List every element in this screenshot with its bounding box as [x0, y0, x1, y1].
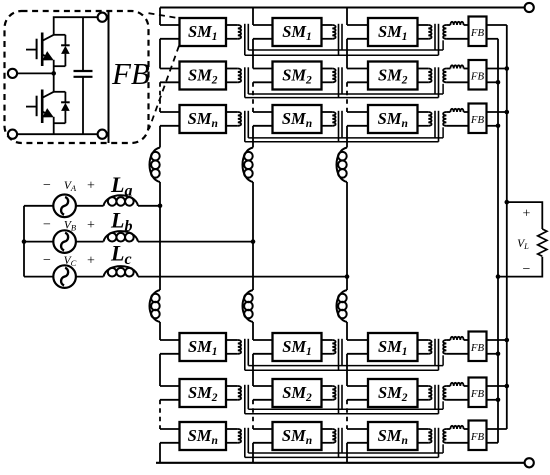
wire midpoint node to Q2 collector: [53, 73, 55, 91]
transistor Q1 (upper IGBT): [26, 33, 54, 67]
submodule SM1 lower arm phase C: [368, 333, 418, 361]
submodule SMn upper arm phase A: [180, 105, 227, 133]
svg-text:+: +: [87, 178, 95, 193]
wire FB row 1 upper positive output: [487, 24, 507, 26]
wire lower arm SMn to bottom bus (phase C): [346, 443, 348, 463]
wire Q1 emitter to midpoint node: [53, 60, 55, 74]
submodule SM2 lower arm phase A: [180, 379, 227, 407]
node FB row 2 lower positive junction: [505, 384, 510, 389]
transformer T2c upper primary winding: [418, 69, 432, 83]
label Lb: [110, 208, 132, 236]
wire outer dc-link bus: [506, 25, 508, 429]
label FB of detail box: [111, 56, 150, 91]
wire phase node to lower arm inductor (phase A): [159, 206, 161, 290]
transformer Tna upper core: [245, 111, 249, 142]
inductor Lc: [104, 266, 139, 277]
transformer Tnb lower core: [339, 428, 343, 458]
dashed leader line lower (detail to SM1): [149, 46, 179, 129]
wire row 2 lower series link lower: [245, 413, 439, 415]
wire row n lower series link upper: [248, 452, 443, 454]
wire pins of SMn upper arm phase A: [160, 112, 180, 126]
wire top rail of detail: [54, 17, 98, 35]
label plus of load: [523, 207, 531, 222]
arm inductor lower (phase B): [243, 290, 254, 322]
inductor output filter row n lower: [446, 426, 468, 429]
submodule SMn lower arm phase C: [368, 422, 418, 450]
wire upper arm inductor to phase node A: [159, 182, 161, 206]
arm inductor lower (phase A): [150, 290, 161, 322]
wire bottom rail of detail: [17, 133, 99, 135]
node neutral junction at VB: [22, 239, 27, 244]
node midpoint junction: [51, 71, 56, 76]
wire VA left lead: [24, 205, 53, 207]
wire FB row n lower positive output: [487, 428, 507, 430]
wire top bus to upper arm SM1 (phase A): [159, 8, 161, 26]
wire FB row 1 lower negative output: [487, 353, 499, 355]
submodule SM1 lower arm phase B: [273, 333, 322, 361]
terminal node top-right of detail: [98, 13, 107, 22]
full-bridge module FB row 1 upper: [469, 17, 487, 47]
transformer Tnb upper core: [339, 111, 343, 142]
svg-text:FB: FB: [470, 27, 485, 39]
svg-text:FB: FB: [470, 388, 485, 400]
submodule SMn upper arm phase B: [273, 105, 322, 133]
wire VC right lead: [76, 276, 104, 278]
wire La to leg 1: [138, 205, 160, 207]
label polarity and name of VA: [43, 178, 95, 194]
wire secondary to FB module row 2 lower: [446, 399, 468, 401]
wire secondary bottom lead to row link: [442, 40, 444, 50]
arm inductor upper (phase A): [150, 148, 161, 183]
node load positive tap: [505, 200, 510, 205]
full-bridge module FB row n lower: [469, 421, 487, 451]
wire Lb to leg 2: [138, 241, 253, 243]
wire lower arm SM1 to SM2 (phase A): [159, 354, 161, 386]
solid separator line in detail box: [108, 11, 110, 143]
node phase C junction: [345, 274, 350, 279]
inductor Lb: [104, 231, 139, 242]
wire upper arm SM1 to SM2 (phase A): [159, 39, 161, 69]
wire inner dc-link bus: [497, 39, 499, 443]
wire pins of SM2 upper arm phase C: [347, 69, 368, 83]
dashed continuation lower arm SM2 to SMn (phase C): [346, 400, 348, 429]
submodule SM2 upper arm phase B: [273, 62, 322, 90]
transformer T2b upper primary winding: [322, 69, 336, 83]
wire bottom dc bus: [156, 462, 524, 464]
wire FB row 1 lower positive output: [487, 339, 507, 341]
node FB row n upper positive junction: [505, 110, 510, 115]
dashed continuation lower arm SM2 to SMn (phase B): [252, 400, 254, 429]
wire lower arm SMn to bottom bus (phase B): [252, 443, 254, 463]
dashed continuation upper arm SM2 to SMn (phase B): [252, 82, 254, 112]
svg-text:FB: FB: [470, 114, 485, 126]
wire Q2 emitter to bottom rail: [53, 117, 55, 134]
wire FB row n lower negative output: [487, 442, 499, 444]
terminal top dc bus: [525, 3, 534, 12]
label minus of load: [523, 262, 531, 277]
full-bridge module FB row n upper: [469, 104, 487, 134]
submodule SMn lower arm phase A: [180, 422, 227, 450]
wire lower arm inductor to SM1 (phase C): [346, 322, 348, 340]
node FB row 2 upper negative junction: [496, 80, 501, 85]
svg-text:+: +: [523, 207, 531, 222]
wire top bus to upper arm SM1 (phase C): [346, 8, 348, 26]
arm inductor upper (phase B): [243, 148, 254, 183]
transformer T1c upper secondary winding: [443, 25, 446, 39]
wire upper arm SMn to arm inductor (phase B): [252, 126, 254, 148]
transformer T1c upper primary winding: [418, 25, 432, 39]
transformer T1b lower core: [339, 339, 343, 371]
wire pins of SM1 upper arm phase C: [347, 25, 368, 39]
svg-text:−: −: [523, 262, 531, 277]
transformer Tna lower core: [245, 428, 249, 458]
svg-text:FB: FB: [470, 342, 485, 354]
submodule SM2 lower arm phase C: [368, 379, 418, 407]
wire secondary bottom lead to row link: [442, 401, 444, 409]
node FB row n upper negative junction: [496, 124, 501, 129]
wire lower arm SMn to bottom bus (phase A): [159, 443, 161, 463]
transformer Tna lower primary winding: [226, 429, 241, 443]
wire FB row n upper positive output: [487, 111, 507, 113]
transformer T1a lower primary winding: [226, 340, 241, 354]
wire row n upper series link lower: [245, 141, 439, 143]
ac source VB: [53, 230, 76, 253]
transformer T2c upper secondary winding: [443, 69, 446, 83]
transformer T2c lower core: [435, 385, 439, 414]
transformer Tnc upper core: [435, 111, 439, 142]
wire left terminal to midpoint node: [17, 72, 54, 74]
capacitor C (submodule dc-link): [74, 71, 93, 77]
wire FB row 2 lower negative output: [487, 399, 499, 401]
label La: [110, 172, 132, 200]
transformer T2b lower primary winding: [322, 386, 336, 400]
node FB row 1 lower negative junction: [496, 352, 501, 357]
node FB row 1 lower positive junction: [505, 338, 510, 343]
wire secondary bottom lead to row link: [442, 84, 444, 94]
inductor output filter row n upper: [446, 109, 468, 112]
diode D2 (antiparallel with Q2): [54, 92, 70, 123]
wire secondary to FB module row n upper: [446, 125, 468, 127]
node phase B junction: [251, 239, 256, 244]
terminal node bottom-right of detail: [98, 130, 107, 139]
label polarity and name of VB: [43, 218, 95, 234]
transformer T1b lower primary winding: [322, 340, 336, 354]
transformer T2b lower core: [339, 385, 343, 414]
wire VB left lead: [24, 241, 53, 243]
transformer T2c lower secondary winding: [443, 386, 446, 400]
transformer T1c lower core: [435, 339, 439, 371]
svg-text:−: −: [43, 218, 51, 233]
wire lower arm inductor to SM1 (phase A): [159, 322, 161, 340]
wire FB row 2 upper positive output: [487, 68, 507, 70]
wire load negative lead: [498, 257, 542, 277]
wire pins of SM1 lower arm phase C: [347, 340, 368, 354]
wire row 2 upper series link upper: [248, 93, 443, 95]
arm inductor lower (phase C): [337, 290, 348, 322]
wire neutral bus of sources: [23, 206, 25, 277]
svg-text:FB: FB: [470, 431, 485, 443]
transistor Q2 (lower IGBT): [26, 90, 54, 124]
resistor load VL: [538, 229, 547, 256]
dashed continuation upper arm SM2 to SMn (phase C): [346, 82, 348, 112]
wire FB row 2 upper negative output: [487, 81, 499, 83]
wire VC left lead: [24, 276, 53, 278]
wire upper arm SMn to arm inductor (phase A): [159, 126, 161, 148]
full-bridge module FB row 2 upper: [469, 60, 487, 90]
wire pins of SM1 upper arm phase A: [160, 25, 180, 39]
transformer Tna upper primary winding: [226, 112, 241, 126]
wire pins of SM2 upper arm phase B: [253, 69, 273, 83]
wire lower arm SM1 to SM2 (phase C): [346, 354, 348, 386]
transformer Tnc lower secondary winding: [443, 429, 446, 443]
wire pins of SMn lower arm phase A: [160, 429, 180, 443]
inductor output filter row 2 upper: [446, 65, 468, 68]
ac source VC: [53, 265, 76, 288]
wire pins of SMn lower arm phase B: [253, 429, 273, 443]
wire top dc bus: [160, 6, 524, 8]
wire capacitor top lead: [82, 17, 84, 71]
submodule SM2 upper arm phase A: [180, 62, 227, 90]
dashed continuation upper arm SM2 to SMn (phase A): [159, 82, 161, 112]
transformer T2a upper core: [245, 67, 249, 97]
wire pins of SMn lower arm phase C: [347, 429, 368, 443]
terminal node bottom-left of detail: [8, 130, 17, 139]
wire pins of SM1 lower arm phase A: [160, 340, 180, 354]
label Lc: [110, 241, 132, 269]
full-bridge module FB row 1 lower: [469, 332, 487, 362]
wire secondary to FB module row 2 upper: [446, 81, 468, 83]
wire row 1 lower series link lower: [245, 369, 439, 371]
transformer T2c lower primary winding: [418, 386, 432, 400]
transformer T1b upper core: [339, 24, 343, 55]
terminal bottom dc bus: [525, 458, 534, 467]
wire row 2 lower series link upper: [248, 408, 443, 410]
wire pins of SMn upper arm phase C: [347, 112, 368, 126]
submodule SM1 lower arm phase A: [180, 333, 227, 361]
transformer Tnc upper secondary winding: [443, 112, 446, 126]
wire pins of SM1 lower arm phase B: [253, 340, 273, 354]
svg-text:+: +: [87, 254, 95, 269]
svg-text:+: +: [87, 218, 95, 233]
wire upper arm inductor to phase node C: [346, 182, 348, 277]
transformer T2a upper primary winding: [226, 69, 241, 83]
transformer T2b upper core: [339, 67, 343, 97]
transformer T2a lower primary winding: [226, 386, 241, 400]
wire lower arm SM1 to SM2 (phase B): [252, 354, 254, 386]
wire upper arm inductor to phase node B: [252, 182, 254, 242]
svg-text:−: −: [43, 178, 51, 193]
submodule SM2 lower arm phase B: [273, 379, 322, 407]
wire lower arm inductor to SM1 (phase B): [252, 322, 254, 340]
transformer T1c upper core: [435, 24, 439, 55]
transformer Tnc lower core: [435, 428, 439, 458]
submodule SMn lower arm phase B: [273, 422, 322, 450]
transformer Tnb lower primary winding: [322, 429, 336, 443]
wire top bus to upper arm SM1 (phase B): [252, 8, 254, 26]
wire pins of SMn upper arm phase B: [253, 112, 273, 126]
wire Lc to leg 3: [138, 276, 347, 278]
wire phase node to lower arm inductor (phase C): [346, 277, 348, 290]
wire secondary to FB module row n lower: [446, 442, 468, 444]
wire row 2 upper series link lower: [245, 97, 439, 99]
transformer T1b upper primary winding: [322, 25, 336, 39]
wire row n lower series link lower: [245, 456, 439, 458]
wire FB row n upper negative output: [487, 125, 499, 127]
arm inductor upper (phase C): [337, 148, 348, 183]
diode D1 (antiparallel with Q1): [54, 35, 70, 66]
submodule SM1 upper arm phase C: [368, 18, 418, 46]
submodule SM1 upper arm phase B: [273, 18, 322, 46]
wire VA right lead: [76, 205, 104, 207]
wire secondary to FB module row 1 lower: [446, 353, 468, 355]
submodule SMn upper arm phase C: [368, 105, 418, 133]
inductor output filter row 2 lower: [446, 383, 468, 386]
wire upper arm SMn to arm inductor (phase C): [346, 126, 348, 148]
dashed leader line upper (detail to SM1): [149, 13, 180, 18]
svg-text:FB: FB: [470, 71, 485, 83]
dashed expansion box of submodule detail: [5, 11, 149, 143]
wire upper arm SM1 to SM2 (phase C): [346, 39, 348, 69]
wire secondary bottom lead to row link: [442, 355, 444, 365]
label polarity and name of VC: [43, 253, 95, 269]
transformer T2a lower core: [245, 385, 249, 414]
wire load positive lead: [507, 202, 543, 229]
transformer T1c lower secondary winding: [443, 340, 446, 354]
node FB row 2 lower negative junction: [496, 398, 501, 403]
full-bridge module FB row 2 lower: [469, 378, 487, 408]
transformer T2c upper core: [435, 67, 439, 97]
wire pins of SM2 lower arm phase C: [347, 386, 368, 400]
transformer T1a upper primary winding: [226, 25, 241, 39]
wire row 1 upper series link lower: [245, 54, 439, 56]
transformer T1a lower core: [245, 339, 249, 371]
inductor output filter row 1 upper: [446, 22, 468, 25]
transformer T1c lower primary winding: [418, 340, 432, 354]
wire pins of SM2 lower arm phase A: [160, 386, 180, 400]
transformer Tnb upper primary winding: [322, 112, 336, 126]
inductor output filter row 1 lower: [446, 337, 468, 340]
node FB row 2 upper positive junction: [505, 66, 510, 71]
submodule SM1 upper arm phase A: [180, 18, 227, 46]
wire phase node to lower arm inductor (phase B): [252, 242, 254, 290]
wire row 1 upper series link upper: [248, 49, 443, 51]
node load negative tap: [496, 274, 501, 279]
submodule SM2 upper arm phase C: [368, 62, 418, 90]
wire pins of SM2 lower arm phase B: [253, 386, 273, 400]
wire pins of SM1 upper arm phase B: [253, 25, 273, 39]
wire FB row 2 lower positive output: [487, 385, 507, 387]
svg-text:FB: FB: [111, 56, 150, 91]
wire secondary bottom lead to row link: [442, 444, 444, 453]
transformer Tnc upper primary winding: [418, 112, 432, 126]
transformer Tnc lower primary winding: [418, 429, 432, 443]
wire row 1 lower series link upper: [248, 365, 443, 367]
wire secondary to FB module row 1 upper: [446, 38, 468, 40]
dashed continuation lower arm SM2 to SMn (phase A): [159, 400, 161, 429]
inductor La: [104, 195, 139, 206]
node phase A junction: [158, 204, 163, 209]
label VL: [517, 238, 529, 251]
wire secondary bottom lead to row link: [442, 127, 444, 138]
wire capacitor bottom lead: [82, 77, 84, 134]
svg-text:−: −: [43, 253, 51, 268]
wire upper arm SM1 to SM2 (phase B): [252, 39, 254, 69]
transformer T1a upper core: [245, 24, 249, 55]
wire pins of SM2 upper arm phase A: [160, 69, 180, 83]
wire VB right lead: [76, 241, 104, 243]
wire FB row 1 upper negative output: [487, 38, 499, 40]
terminal node left (midpoint) of detail: [8, 69, 17, 78]
wire row n upper series link upper: [248, 137, 443, 139]
ac source VA: [53, 195, 76, 218]
